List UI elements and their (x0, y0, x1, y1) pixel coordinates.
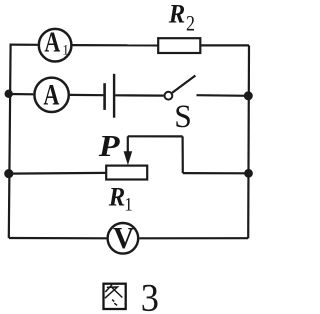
wire left vertical (9, 45, 11, 238)
wire right vertical (247, 45, 250, 238)
battery long plate (113, 74, 115, 118)
wire row2 switch-to-right (197, 94, 249, 97)
svg-text:1: 1 (62, 42, 69, 59)
svg-text:P: P (98, 129, 121, 163)
wire top-right segment (200, 44, 249, 46)
wire row3 right (183, 172, 249, 174)
svg-text:A: A (43, 79, 59, 112)
wire row2 ammeter-to-battery (70, 94, 104, 96)
voltmeter V (108, 220, 139, 255)
wire top mid segment (72, 44, 159, 47)
wire row3 left (9, 172, 106, 175)
wire row2 battery-to-switch (115, 94, 164, 96)
wire wiper right vertical (182, 136, 184, 173)
svg-text:R: R (168, 0, 185, 29)
junction dot row2 left (5, 90, 13, 98)
wire top-left segment (11, 45, 38, 46)
wire bottom-right segment (139, 237, 248, 239)
label R2 (168, 0, 195, 36)
label R1 (108, 183, 133, 215)
caption glyph 图 (104, 284, 126, 309)
svg-text:V: V (113, 220, 134, 255)
ammeter A1 (39, 25, 72, 61)
wire bottom-left segment (9, 237, 107, 240)
svg-text:3: 3 (141, 276, 159, 314)
battery short plate (103, 83, 106, 110)
battery cell (105, 74, 115, 118)
wire wiper-up segment (128, 135, 183, 137)
resistor R2 (158, 38, 200, 53)
svg-text:2: 2 (186, 12, 195, 36)
svg-text:A: A (44, 25, 60, 58)
junction dot row3 left (4, 169, 13, 178)
ammeter A (34, 78, 68, 112)
wire row2 left (9, 93, 34, 96)
switch S (165, 76, 196, 100)
junction dot row3 right (244, 169, 253, 178)
resistor R1 (rheostat body) (106, 166, 147, 180)
junction dot row2 right (244, 91, 253, 100)
svg-text:S: S (174, 98, 192, 135)
svg-text:R: R (108, 183, 125, 212)
svg-text:1: 1 (124, 194, 133, 215)
rheostat wiper arrow P (124, 136, 133, 165)
